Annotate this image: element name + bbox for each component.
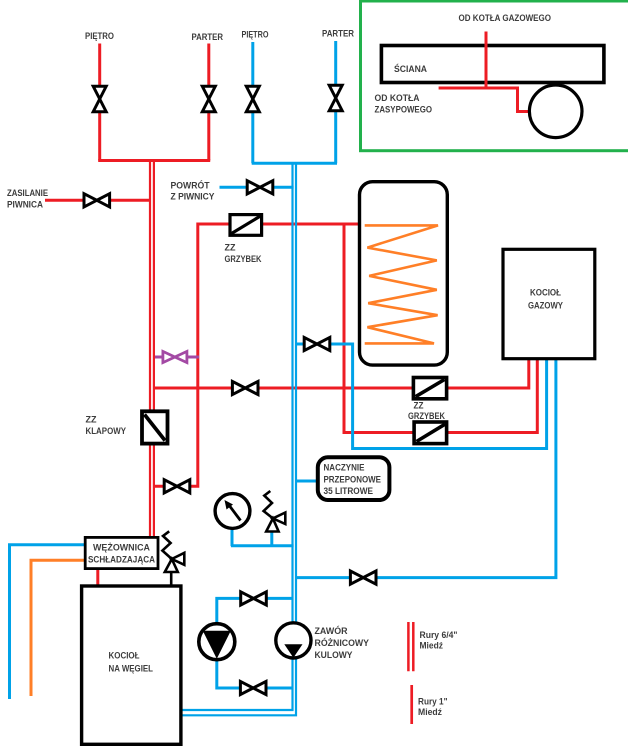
red trunk double line bbox=[149, 160, 151, 537]
valve V6 powrot bbox=[247, 181, 273, 194]
blue pump bypass bottom bbox=[217, 659, 293, 689]
valve V1 riser bbox=[93, 86, 106, 112]
pump P2 bbox=[276, 623, 311, 658]
svg-text:SCHŁADZAJĄCA: SCHŁADZAJĄCA bbox=[88, 555, 155, 566]
blue pipe tank coil bottom to gas boiler bbox=[296, 344, 547, 449]
blue stub gauge bbox=[231, 529, 234, 547]
svg-text:PIWNICA: PIWNICA bbox=[7, 200, 43, 211]
valve V9 lower red bbox=[164, 480, 190, 493]
safety valve SV2 bbox=[162, 531, 184, 586]
svg-text:35 LITROWE: 35 LITROWE bbox=[324, 486, 374, 497]
orange heating coil bbox=[365, 225, 438, 343]
orange feed to cooling coil bbox=[31, 560, 85, 696]
purple bypass pipe bbox=[155, 356, 199, 359]
blue stub safety valve bbox=[270, 532, 273, 547]
blue pump bypass top bbox=[217, 598, 293, 624]
svg-text:PARTER: PARTER bbox=[192, 32, 224, 43]
wall box SCIANA bbox=[381, 46, 604, 83]
chimney circle bbox=[529, 85, 582, 138]
valve V8 middle main bbox=[232, 381, 258, 394]
svg-text:ZZ: ZZ bbox=[225, 243, 236, 254]
coal boiler box KOCIOL NA WEGIEL bbox=[82, 586, 181, 744]
svg-text:OD KOTŁA: OD KOTŁA bbox=[375, 93, 420, 104]
svg-text:ZZ: ZZ bbox=[86, 415, 97, 426]
check valve box ZZ GRZYBEK 3 bbox=[414, 422, 447, 444]
svg-text:KULOWY: KULOWY bbox=[315, 650, 354, 661]
svg-text:Z PIWNICY: Z PIWNICY bbox=[171, 192, 216, 203]
valve V12 pump bypass top bbox=[241, 592, 267, 605]
check valve box ZZ GRZYBEK 1 bbox=[230, 215, 262, 236]
blue gauge/safety manifold pipe bbox=[231, 544, 294, 547]
svg-text:Rury 6/4": Rury 6/4" bbox=[420, 630, 458, 641]
valve V4 riser bbox=[329, 85, 342, 111]
red supply bus bbox=[98, 159, 210, 162]
valve V10 tank coil bbox=[304, 337, 330, 350]
svg-text:Rury 1": Rury 1" bbox=[418, 697, 448, 708]
legend pipe 6/4 double mark bbox=[408, 622, 413, 671]
valve V3 riser bbox=[246, 86, 259, 112]
svg-text:OD KOTŁA GAZOWEGO: OD KOTŁA GAZOWEGO bbox=[459, 13, 552, 24]
blue return bus bbox=[252, 162, 337, 165]
pressure gauge bbox=[215, 494, 250, 529]
svg-text:POWRÓT: POWRÓT bbox=[171, 180, 210, 192]
svg-text:Miedź: Miedź bbox=[418, 707, 442, 718]
red riser PIETRO bbox=[98, 44, 101, 161]
gas boiler box KOCIOL GAZOWY bbox=[503, 249, 595, 358]
pipe ZASILANIE PIWNICA bbox=[45, 199, 151, 202]
valve V11 long return bbox=[350, 571, 376, 584]
svg-text:RÓŻNICOWY: RÓŻNICOWY bbox=[315, 637, 370, 649]
valve V2 riser bbox=[202, 86, 215, 112]
red riser PARTER bbox=[207, 44, 210, 161]
svg-text:NACZYNIE: NACZYNIE bbox=[324, 463, 365, 474]
expansion vessel box NACZYNIE bbox=[318, 457, 390, 500]
red pipe upper loop (to tank) bbox=[154, 224, 360, 486]
svg-text:KLAPOWY: KLAPOWY bbox=[86, 426, 127, 437]
svg-text:NA WĘGIEL: NA WĘGIEL bbox=[109, 664, 154, 675]
red pipe middle main to gas boiler bbox=[154, 359, 529, 388]
blue riser PIETRO bbox=[251, 42, 254, 163]
svg-text:ZASILANIE: ZASILANIE bbox=[7, 188, 48, 199]
pipe POWROT Z PIWNICY bbox=[220, 186, 294, 189]
svg-text:KOCIOŁ: KOCIOŁ bbox=[109, 651, 140, 662]
red pipe tank branch down to gas boiler bbox=[344, 224, 537, 433]
valve V5 zasilanie bbox=[84, 194, 110, 207]
svg-text:PIĘTRO: PIĘTRO bbox=[242, 30, 269, 41]
svg-text:ZASYPOWEGO: ZASYPOWEGO bbox=[375, 105, 433, 116]
svg-text:KOCIOŁ: KOCIOŁ bbox=[530, 288, 561, 299]
INSET: green frame bbox=[361, 1, 628, 151]
svg-text:ZZ: ZZ bbox=[414, 401, 424, 412]
svg-text:ZAWÓR: ZAWÓR bbox=[315, 625, 348, 637]
legend pipe 1 single mark bbox=[410, 685, 413, 724]
blue feed to cooling coil bbox=[10, 545, 86, 699]
blue pipe gas boiler return long run bbox=[296, 359, 556, 578]
pipe from gas boiler (red, inset) bbox=[439, 32, 530, 112]
svg-text:PARTER: PARTER bbox=[322, 29, 354, 40]
pump P1 bbox=[199, 624, 235, 660]
blue riser PARTER bbox=[334, 41, 337, 163]
valve V13 pump bypass bottom bbox=[240, 681, 266, 694]
safety valve SV1 bbox=[264, 491, 286, 532]
check valve box ZZ KLAPOWY bbox=[142, 411, 168, 443]
svg-text:PRZEPONOWE: PRZEPONOWE bbox=[324, 475, 382, 486]
svg-text:ŚCIANA: ŚCIANA bbox=[394, 63, 427, 75]
svg-text:GRZYBEK: GRZYBEK bbox=[225, 254, 262, 265]
svg-text:GAZOWY: GAZOWY bbox=[528, 301, 564, 312]
red stub cooling coil box to coal boiler bbox=[96, 569, 99, 587]
blue trunk double line B bbox=[181, 163, 296, 715]
blue stub to expansion vessel bbox=[296, 480, 318, 483]
check valve box ZZ GRZYBEK 2 bbox=[413, 378, 446, 399]
tank (hot water cylinder) bbox=[360, 182, 448, 365]
blue trunk double line A bbox=[181, 163, 293, 710]
svg-text:PIĘTRO: PIĘTRO bbox=[85, 31, 114, 42]
svg-text:WĘŻOWNICA: WĘŻOWNICA bbox=[93, 543, 150, 554]
cooling coil box WEZOWNICA bbox=[85, 537, 158, 568]
svg-text:Miedź: Miedź bbox=[420, 641, 444, 652]
valve V7 purple bypass bbox=[163, 351, 187, 362]
